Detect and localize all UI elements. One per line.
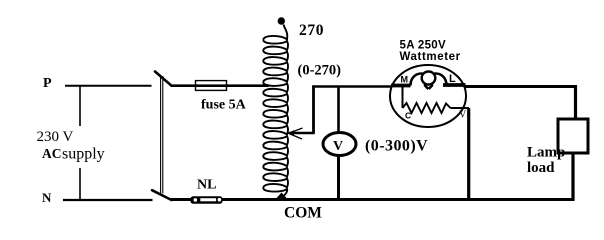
svg-text:NL: NL <box>197 178 216 193</box>
switch S1 blade (N pole) <box>152 190 172 200</box>
wire bottom rail <box>171 198 575 201</box>
wire lamp bottom <box>571 153 574 201</box>
fuse F1 5A <box>195 81 227 91</box>
wire top bus tap to wattmeter <box>312 85 392 88</box>
svg-text:M: M <box>401 75 409 85</box>
wattmeter W1 body <box>390 65 466 127</box>
node N <box>42 190 52 205</box>
wire wattmeter V terminal to bottom rail <box>467 108 470 200</box>
voltmeter V1 <box>323 133 356 156</box>
label NL <box>197 178 216 193</box>
wattmeter pin L <box>449 73 456 85</box>
svg-text:Lamp: Lamp <box>527 145 565 161</box>
svg-text:Wattmeter: Wattmeter <box>400 51 461 63</box>
label (0-270) tap <box>298 63 342 79</box>
svg-text:N: N <box>42 190 52 205</box>
svg-text:AC: AC <box>42 146 62 161</box>
switch linkage <box>161 76 163 194</box>
svg-text:fuse 5A: fuse 5A <box>201 98 247 113</box>
label fuse 5A <box>201 98 247 113</box>
svg-text:COM: COM <box>284 205 322 222</box>
wire switch to fuse <box>171 84 197 87</box>
svg-text:(0-300)V: (0-300)V <box>365 138 428 155</box>
svg-text:5A 250V: 5A 250V <box>400 40 446 52</box>
wire voltmeter bottom branch <box>337 155 340 200</box>
wire P-line <box>65 85 152 87</box>
svg-text:230 V: 230 V <box>37 129 74 145</box>
switch S1 blade (P pole) <box>155 72 172 86</box>
wire tap riser <box>312 85 315 133</box>
wire right side down to lamp <box>574 85 577 119</box>
svg-text:L: L <box>449 73 456 85</box>
label (0-300)V <box>365 138 428 155</box>
fuse NL (neutral link) <box>191 196 223 204</box>
svg-text:supply: supply <box>62 146 105 163</box>
svg-text:V: V <box>333 139 343 154</box>
label 270 <box>299 22 324 39</box>
autotransformer T1 winding <box>263 25 288 198</box>
wattmeter W1 current coil M-L <box>391 72 466 90</box>
label Lamp load <box>527 145 565 177</box>
wire voltmeter top branch <box>337 87 340 135</box>
node COM junction <box>277 193 287 199</box>
wattmeter pin C <box>405 111 411 121</box>
wire fuse to variac <box>226 84 269 87</box>
svg-text:270: 270 <box>299 22 324 39</box>
wattmeter pin V <box>459 110 467 121</box>
wiper arrow of variac <box>287 128 315 139</box>
svg-text:(0-270): (0-270) <box>298 63 342 79</box>
svg-text:P: P <box>43 76 52 91</box>
wattmeter W1 pressure coil <box>403 87 470 113</box>
wattmeter pin M <box>401 75 409 85</box>
wire N-line <box>63 199 153 201</box>
autotransformer T1 terminal dot (270) <box>278 17 285 24</box>
svg-text:load: load <box>527 160 555 176</box>
node P <box>43 76 52 91</box>
label 5A 250V Wattmeter <box>400 40 461 64</box>
label COM <box>284 205 322 222</box>
lamp load LP1 <box>558 119 588 153</box>
svg-text:V: V <box>459 110 467 121</box>
svg-text:C: C <box>405 111 411 121</box>
wire wattmeter L to right corner <box>464 85 577 88</box>
supply 230V AC source <box>37 86 105 200</box>
